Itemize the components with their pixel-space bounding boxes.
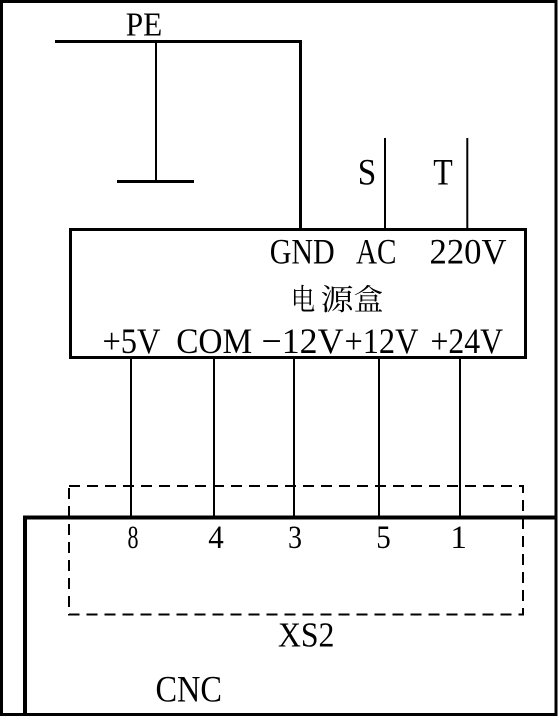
- wire -12V to pin 3: [293, 359, 295, 517]
- CNC box left edge: [23, 516, 27, 715]
- svg-text:5: 5: [376, 520, 391, 556]
- connector XS2 dashed outline: [69, 486, 523, 615]
- wire +5V to pin 8: [130, 359, 132, 517]
- svg-text:T: T: [433, 152, 453, 193]
- label dianyuanhe char dian: [294, 285, 314, 312]
- wire ground stem: [155, 42, 157, 182]
- label dianyuanhe char yuan: [322, 285, 353, 312]
- svg-text:+12V: +12V: [345, 321, 419, 361]
- svg-text:+24V: +24V: [431, 321, 504, 361]
- svg-text:−12V: −12V: [262, 321, 344, 361]
- svg-text:AC: AC: [356, 232, 397, 272]
- CNC box top edge: [23, 516, 557, 520]
- svg-text:S: S: [358, 152, 377, 193]
- svg-text:CNC: CNC: [155, 670, 222, 711]
- wire COM to pin 4: [213, 359, 215, 517]
- wire +24V to pin 1: [459, 359, 461, 517]
- wire S phase: [384, 138, 386, 230]
- wire PE horizontal: [55, 40, 302, 43]
- wire +12V to pin 5: [378, 359, 380, 517]
- svg-text:PE: PE: [126, 7, 163, 44]
- svg-text:XS2: XS2: [278, 616, 335, 655]
- svg-text:4: 4: [208, 520, 224, 556]
- svg-text:+5V: +5V: [103, 321, 161, 361]
- svg-text:GND: GND: [270, 232, 335, 272]
- power supply box U1: [71, 230, 526, 358]
- svg-text:220V: 220V: [430, 232, 507, 272]
- label dianyuanhe char he: [355, 285, 382, 312]
- svg-text:1: 1: [450, 520, 467, 556]
- ground bar PE earth: [117, 180, 194, 183]
- svg-text:8: 8: [128, 520, 139, 556]
- wire T phase: [466, 138, 468, 230]
- wire PE drop to power box: [299, 42, 302, 231]
- svg-text:COM: COM: [176, 321, 252, 361]
- svg-text:3: 3: [288, 520, 302, 556]
